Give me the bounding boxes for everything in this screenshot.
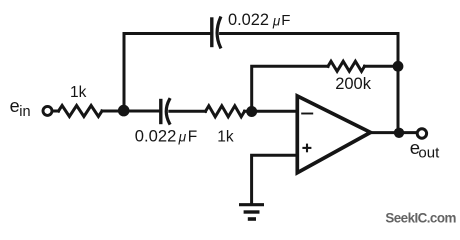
svg-text:1k: 1k — [217, 128, 234, 145]
svg-text:μ: μ — [272, 14, 281, 29]
svg-text:SeekIC.com: SeekIC.com — [385, 210, 456, 225]
svg-text:out: out — [418, 145, 440, 162]
svg-text:μ: μ — [178, 130, 187, 145]
svg-text:0.022: 0.022 — [135, 126, 177, 145]
svg-text:e: e — [10, 96, 20, 116]
svg-text:F: F — [281, 12, 290, 29]
svg-text:200k: 200k — [335, 75, 372, 93]
svg-text:F: F — [188, 128, 197, 145]
svg-text:in: in — [19, 104, 30, 120]
svg-text:0.022: 0.022 — [228, 11, 269, 29]
svg-text:1k: 1k — [70, 84, 87, 101]
